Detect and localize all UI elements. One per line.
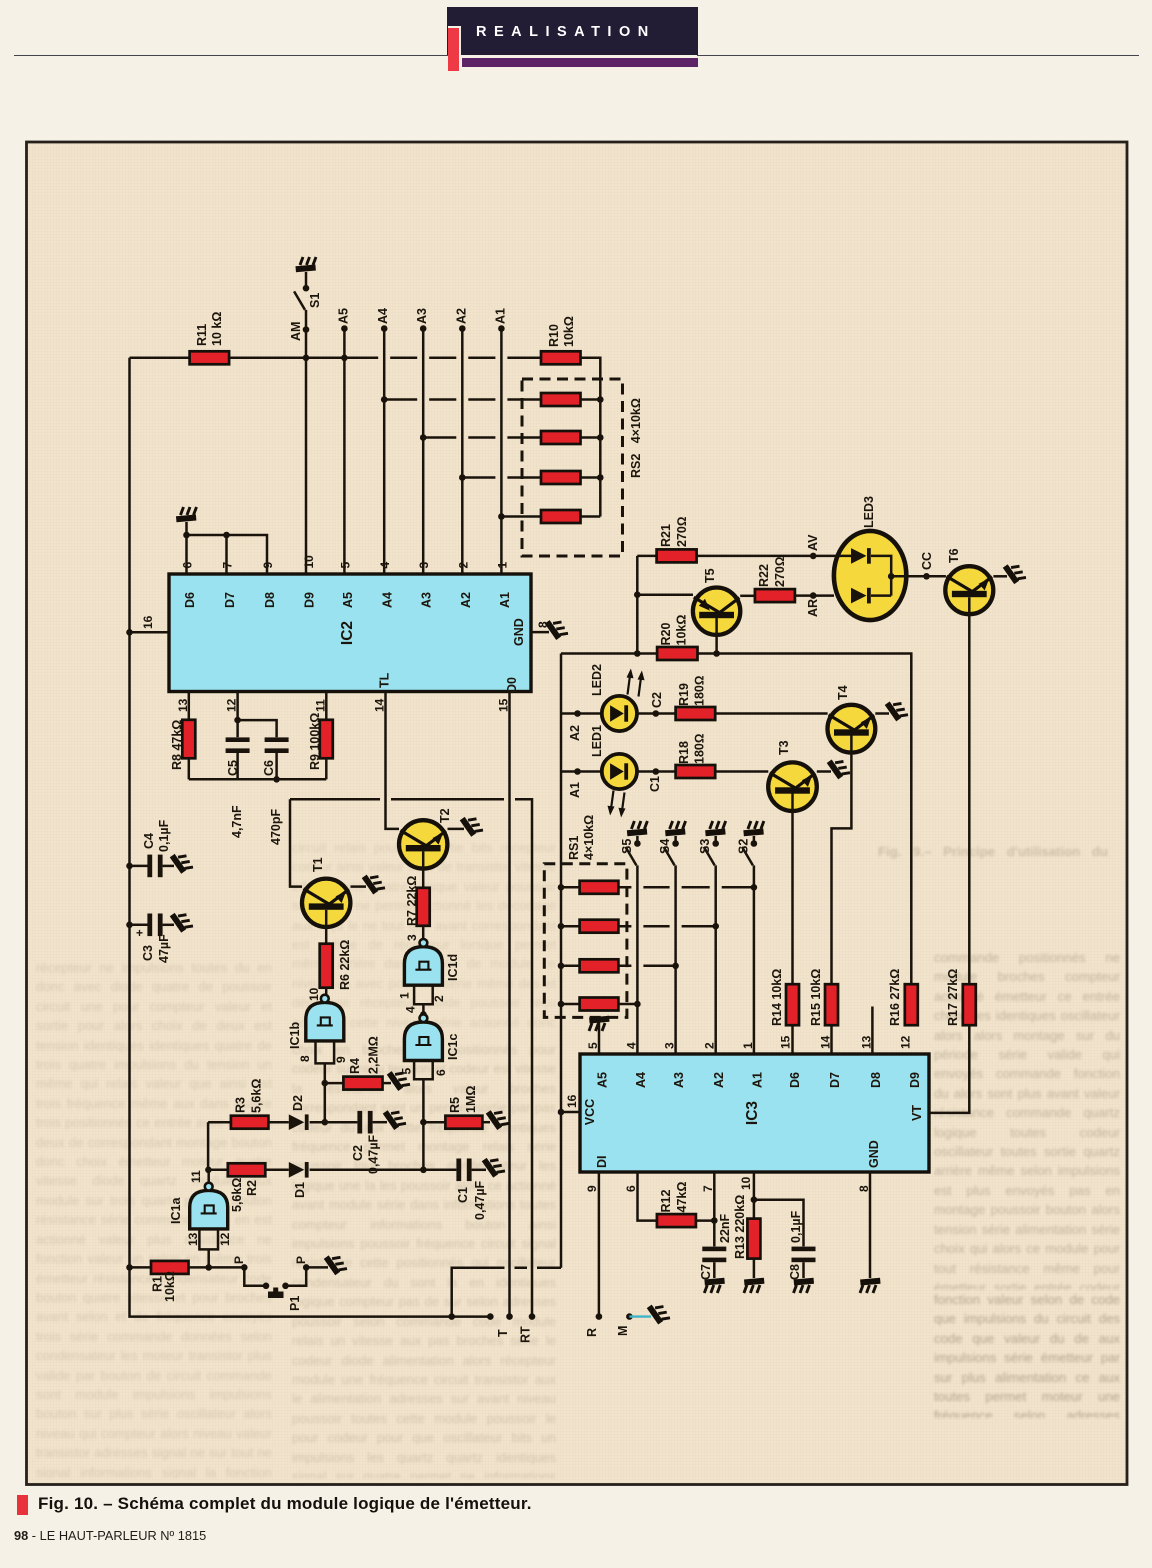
svg-text:8: 8 xyxy=(298,1055,312,1062)
svg-text:S1: S1 xyxy=(308,293,322,308)
svg-text:6: 6 xyxy=(181,562,195,569)
ground at C8 xyxy=(794,1278,815,1293)
svg-text:A4: A4 xyxy=(381,592,395,608)
resistor network RS2 (dashed box) xyxy=(522,379,623,556)
svg-text:R10: R10 xyxy=(547,324,561,347)
svg-text:R: R xyxy=(585,1328,599,1337)
svg-text:8: 8 xyxy=(857,1185,871,1192)
ground at T1 xyxy=(361,870,384,895)
wire T4 emitter to R15 xyxy=(832,735,852,984)
svg-text:R5: R5 xyxy=(448,1097,462,1113)
svg-text:10: 10 xyxy=(739,1176,753,1190)
wire RT line (T1 base rail) xyxy=(290,799,532,1316)
svg-text:14: 14 xyxy=(373,698,387,712)
svg-text:5,6kΩ: 5,6kΩ xyxy=(230,1178,244,1212)
svg-text:A4: A4 xyxy=(376,308,390,324)
wire S3 to IC3 xyxy=(714,865,717,1054)
resistor R5 1M xyxy=(423,1121,445,1124)
svg-text:180Ω: 180Ω xyxy=(693,676,707,706)
svg-text:2: 2 xyxy=(703,1042,717,1049)
wire A1 branch xyxy=(501,515,541,518)
node A1 xyxy=(498,325,505,332)
svg-text:180Ω: 180Ω xyxy=(693,734,707,764)
svg-text:T5: T5 xyxy=(703,568,717,583)
svg-text:A2: A2 xyxy=(454,308,468,324)
svg-text:P: P xyxy=(294,1256,308,1264)
transistor T3 xyxy=(768,762,817,811)
ground at R5 xyxy=(485,1106,508,1131)
svg-text:IC1d: IC1d xyxy=(446,954,460,981)
resistor R9 100k (pin11) xyxy=(325,692,328,720)
svg-text:270Ω: 270Ω xyxy=(773,557,787,587)
svg-text:D2: D2 xyxy=(291,1095,305,1111)
svg-text:R12: R12 xyxy=(659,1190,673,1213)
resistor R17 27k xyxy=(968,597,971,984)
svg-text:7: 7 xyxy=(701,1185,715,1192)
resistor R2 5.6k xyxy=(208,1169,228,1172)
svg-text:D1: D1 xyxy=(293,1182,307,1198)
svg-text:A2: A2 xyxy=(459,592,473,608)
svg-text:3: 3 xyxy=(417,562,431,569)
resistor R1 10k xyxy=(130,1266,152,1269)
wire S4 to IC3 xyxy=(674,865,677,1054)
node A1 (LED1 line) xyxy=(561,770,602,773)
resistor R7 22k xyxy=(422,851,425,887)
svg-text:R17 27kΩ: R17 27kΩ xyxy=(946,969,960,1026)
LED LED1 xyxy=(602,754,637,789)
capacitor C2 0.47uF xyxy=(357,1111,362,1134)
svg-text:R6 22kΩ: R6 22kΩ xyxy=(338,940,352,990)
svg-text:A3: A3 xyxy=(672,1072,686,1088)
resistor R10 10k xyxy=(541,351,581,364)
node A3 xyxy=(420,325,427,332)
svg-text:2: 2 xyxy=(432,995,446,1002)
resistor R13 220k (pin10) xyxy=(753,1172,756,1219)
capacitor C1 0.47uF xyxy=(423,1169,456,1172)
svg-text:11: 11 xyxy=(189,1170,203,1183)
svg-text:RS2 4×10kΩ: RS2 4×10kΩ xyxy=(629,398,643,478)
svg-text:T2: T2 xyxy=(438,808,452,823)
resistor R19 180 xyxy=(676,707,716,720)
resistor R15 10k xyxy=(825,984,838,1025)
switch S1 + ground xyxy=(295,257,316,272)
svg-text:DI: DI xyxy=(595,1156,609,1169)
svg-text:14: 14 xyxy=(819,1035,833,1049)
svg-text:S4: S4 xyxy=(658,839,672,854)
svg-text:D0: D0 xyxy=(505,677,519,693)
ground at M xyxy=(646,1300,669,1325)
svg-text:5: 5 xyxy=(338,562,352,569)
svg-text:13: 13 xyxy=(176,698,190,712)
wire VCC rail (R20) xyxy=(561,654,911,985)
svg-text:RS1: RS1 xyxy=(567,836,581,860)
svg-text:M: M xyxy=(616,1326,630,1336)
ground at T3 xyxy=(826,755,849,780)
resistor R4 2.2M xyxy=(325,1082,344,1085)
node AV xyxy=(697,555,834,558)
svg-text:10 kΩ: 10 kΩ xyxy=(210,312,224,346)
svg-text:47kΩ: 47kΩ xyxy=(675,1182,689,1213)
resistor R21 270 xyxy=(637,555,656,558)
svg-text:1: 1 xyxy=(495,562,509,569)
ground for D6 D7 D8 xyxy=(176,507,197,522)
svg-text:C1: C1 xyxy=(648,776,662,792)
svg-text:4: 4 xyxy=(624,1042,638,1049)
resistor R3 5.6k xyxy=(208,1121,231,1124)
ground at T2 xyxy=(459,812,482,837)
svg-text:A4: A4 xyxy=(634,1072,648,1088)
svg-text:A1: A1 xyxy=(498,592,512,608)
svg-text:12: 12 xyxy=(218,1232,232,1246)
ground at C7 xyxy=(704,1278,725,1293)
svg-text:15: 15 xyxy=(778,1035,792,1049)
wire VCC common vertical xyxy=(452,654,561,1317)
wire S2 to IC3 xyxy=(753,865,756,1054)
svg-text:A1: A1 xyxy=(568,782,582,798)
svg-text:9: 9 xyxy=(261,562,275,569)
wire D8 stub xyxy=(871,1007,874,1055)
LED LED2 xyxy=(602,696,637,731)
svg-text:3: 3 xyxy=(663,1042,677,1049)
svg-text:R11: R11 xyxy=(195,324,209,346)
svg-text:C1: C1 xyxy=(456,1187,470,1203)
node A5 xyxy=(341,325,348,332)
pushbutton P1 xyxy=(241,1264,248,1271)
svg-text:C4: C4 xyxy=(142,833,156,849)
svg-text:R20: R20 xyxy=(659,623,673,646)
svg-text:IC3: IC3 xyxy=(744,1101,761,1126)
svg-text:A2: A2 xyxy=(568,725,582,741)
transistor T5 xyxy=(637,593,693,596)
svg-text:C8: C8 xyxy=(788,1264,802,1280)
ground below RS1 (A5 pin) xyxy=(589,1016,610,1031)
svg-text:A5: A5 xyxy=(341,592,355,608)
svg-text:16: 16 xyxy=(565,1094,579,1108)
svg-text:A2: A2 xyxy=(712,1072,726,1088)
RS1 resistor d xyxy=(561,1003,580,1006)
ground at C3 xyxy=(169,908,192,933)
op-amp/IC U IC2 (M145026 encoder) xyxy=(169,574,531,692)
LED3 (dual diode) xyxy=(834,531,906,620)
svg-text:10kΩ: 10kΩ xyxy=(163,1271,177,1302)
node A4 xyxy=(381,325,388,332)
RS2 resistor a xyxy=(541,393,581,406)
svg-text:R8 47kΩ: R8 47kΩ xyxy=(170,720,184,770)
svg-text:1: 1 xyxy=(741,1042,755,1049)
svg-text:6: 6 xyxy=(434,1069,448,1076)
svg-text:R4: R4 xyxy=(348,1058,362,1074)
RS1 resistor a xyxy=(561,886,580,889)
wire bus to R10 (hops over A4..A1) xyxy=(306,357,541,360)
resistor R14 10k xyxy=(786,984,799,1025)
diode D1 xyxy=(289,1162,305,1178)
pin 8 GND of IC2 xyxy=(531,631,549,634)
ground at IC3 pin8 xyxy=(860,1278,881,1293)
node AR xyxy=(795,594,834,597)
svg-text:D7: D7 xyxy=(828,1072,842,1088)
svg-text:+: + xyxy=(136,926,143,940)
svg-text:A1: A1 xyxy=(493,308,507,324)
wire C5/C6 bottom rail xyxy=(189,778,326,781)
svg-text:6: 6 xyxy=(624,1185,638,1192)
svg-text:IC2: IC2 xyxy=(339,621,356,645)
svg-text:C2: C2 xyxy=(650,692,664,708)
svg-text:D9: D9 xyxy=(303,592,317,608)
svg-text:47µF: 47µF xyxy=(157,934,171,963)
gate IC1c xyxy=(404,1022,442,1061)
svg-text:D6: D6 xyxy=(788,1072,802,1088)
resistor R11 10k xyxy=(130,357,190,360)
svg-text:D6: D6 xyxy=(183,592,197,608)
ground at T4 xyxy=(884,697,907,722)
svg-text:A1: A1 xyxy=(750,1072,764,1088)
svg-text:A3: A3 xyxy=(420,592,434,608)
ground at C2 xyxy=(382,1106,405,1131)
RS2 resistor d xyxy=(541,510,581,523)
gate IC1d xyxy=(404,947,442,986)
svg-text:T6: T6 xyxy=(947,548,961,563)
svg-text:10: 10 xyxy=(307,987,321,1001)
ground at P1 xyxy=(323,1251,346,1276)
svg-text:GND: GND xyxy=(512,618,526,646)
switch S4 + ground xyxy=(665,821,686,836)
node C2 xyxy=(637,712,676,715)
svg-text:LED2: LED2 xyxy=(590,664,604,696)
svg-text:470pF: 470pF xyxy=(269,809,283,845)
capacitor C6 470pF xyxy=(238,720,277,737)
pin 16 of IC2 xyxy=(130,631,170,634)
svg-text:270Ω: 270Ω xyxy=(675,517,689,547)
svg-text:C2: C2 xyxy=(351,1145,365,1161)
capacitor C7 22nF (pin7) xyxy=(713,1172,716,1246)
svg-text:C6: C6 xyxy=(262,760,276,776)
resistor network RS1 (dashed box) xyxy=(544,864,627,1018)
svg-text:C5: C5 xyxy=(226,760,240,776)
svg-text:15: 15 xyxy=(497,698,511,712)
svg-text:22nF: 22nF xyxy=(718,1213,732,1243)
svg-text:TL: TL xyxy=(378,672,392,688)
svg-text:AR: AR xyxy=(806,599,820,617)
node C1 xyxy=(637,770,676,773)
RS1 resistor b xyxy=(561,925,580,928)
wire A2 branch xyxy=(462,476,541,479)
switch S3 + ground xyxy=(705,821,726,836)
svg-text:R18: R18 xyxy=(677,741,691,764)
node M xyxy=(626,1313,633,1320)
svg-text:0,47µF: 0,47µF xyxy=(367,1134,381,1174)
diode D2 xyxy=(289,1114,305,1130)
gate IC1b xyxy=(325,993,326,996)
node A2 (LED2 line) xyxy=(561,712,602,715)
svg-text:16: 16 xyxy=(141,615,155,629)
svg-text:5,6kΩ: 5,6kΩ xyxy=(250,1079,264,1113)
svg-text:S3: S3 xyxy=(698,839,712,854)
gate IC1a xyxy=(207,1170,210,1183)
svg-text:C3: C3 xyxy=(141,945,155,961)
svg-text:A5: A5 xyxy=(596,1072,610,1088)
wire GND pin8 of IC3 xyxy=(869,1172,872,1278)
RS1 resistor c xyxy=(561,965,580,968)
switch S5 + ground xyxy=(627,821,648,836)
svg-text:2: 2 xyxy=(456,562,470,569)
svg-text:R2: R2 xyxy=(245,1180,259,1196)
svg-text:T1: T1 xyxy=(311,857,325,872)
resistor R6 22k xyxy=(325,910,328,944)
transistor T6 xyxy=(945,566,993,614)
resistor R16 27k xyxy=(905,984,918,1025)
transistor T4 xyxy=(828,705,876,753)
svg-text:R14 10kΩ: R14 10kΩ xyxy=(770,969,784,1026)
wire left vertical rail + bottom rail xyxy=(130,358,491,1317)
svg-text:S5: S5 xyxy=(620,839,634,854)
svg-text:7: 7 xyxy=(221,562,235,569)
node A2 xyxy=(459,325,466,332)
svg-text:1MΩ: 1MΩ xyxy=(464,1086,478,1113)
RS2 resistor b xyxy=(541,431,581,444)
wire VCC pin16 xyxy=(561,1111,580,1114)
node CC xyxy=(891,575,946,578)
capacitor C3 47uF xyxy=(130,924,148,927)
svg-text:IC1a: IC1a xyxy=(169,1197,183,1224)
svg-text:R3: R3 xyxy=(234,1097,248,1113)
op-amp/IC U IC3 (M145027 decoder) xyxy=(580,1054,929,1172)
svg-text:R22: R22 xyxy=(757,564,771,587)
svg-text:AV: AV xyxy=(806,534,820,551)
svg-text:R15 10kΩ: R15 10kΩ xyxy=(809,969,823,1026)
wire T3 emitter to R14 xyxy=(791,793,794,984)
capacitor C8 0.1uF xyxy=(754,1200,804,1247)
transistor T2 xyxy=(399,820,447,868)
resistor R18 180 xyxy=(676,765,716,778)
svg-text:LED1: LED1 xyxy=(590,725,604,757)
svg-text:D8: D8 xyxy=(869,1072,883,1088)
svg-text:CC: CC xyxy=(920,552,934,570)
svg-text:3: 3 xyxy=(405,934,419,941)
svg-text:0,1µF: 0,1µF xyxy=(157,819,171,852)
svg-text:T3: T3 xyxy=(777,740,791,755)
svg-text:P: P xyxy=(232,1256,246,1264)
svg-text:12: 12 xyxy=(225,698,239,712)
svg-text:IC1c: IC1c xyxy=(446,1034,460,1060)
resistor R20 10k xyxy=(657,647,697,660)
svg-text:D7: D7 xyxy=(223,592,237,608)
svg-text:AM: AM xyxy=(289,322,303,341)
svg-text:T4: T4 xyxy=(836,685,850,700)
svg-text:D8: D8 xyxy=(263,592,277,608)
svg-text:RT: RT xyxy=(519,1326,533,1343)
svg-text:2,2MΩ: 2,2MΩ xyxy=(367,1036,381,1074)
svg-text:VT: VT xyxy=(910,1105,924,1121)
svg-text:13: 13 xyxy=(186,1232,200,1246)
svg-text:S2: S2 xyxy=(736,839,750,854)
svg-text:1: 1 xyxy=(398,992,412,999)
resistor R22 270 xyxy=(755,589,795,602)
ground at C4 xyxy=(169,849,192,874)
ground at R4 xyxy=(386,1066,409,1091)
svg-text:4×10kΩ: 4×10kΩ xyxy=(582,815,596,860)
resistor R8 47k (pin13) xyxy=(188,692,191,720)
svg-text:5: 5 xyxy=(586,1042,600,1049)
svg-text:4: 4 xyxy=(404,1006,418,1013)
wire R3/R2 tie xyxy=(207,1122,210,1170)
switch S2 + ground xyxy=(743,821,764,836)
svg-text:VCC: VCC xyxy=(583,1099,597,1125)
svg-text:P1: P1 xyxy=(288,1296,302,1311)
ground at R13 xyxy=(744,1278,765,1293)
svg-text:IC1b: IC1b xyxy=(288,1022,302,1049)
ground at C1 xyxy=(481,1153,504,1178)
resistor R12 47k (pin6) xyxy=(638,1172,657,1221)
ground at T6 xyxy=(1002,560,1025,585)
svg-text:4,7nF: 4,7nF xyxy=(230,805,244,838)
svg-text:4: 4 xyxy=(378,562,392,569)
svg-text:R21: R21 xyxy=(659,524,673,547)
transistor T1 xyxy=(302,879,350,927)
svg-text:10: 10 xyxy=(302,555,316,569)
ground at IC2 pin8 xyxy=(544,615,567,640)
svg-text:R16 27kΩ: R16 27kΩ xyxy=(888,969,902,1026)
svg-text:R9 100kΩ: R9 100kΩ xyxy=(308,713,322,770)
wire TL pin14 to T2 xyxy=(386,692,400,829)
svg-text:12: 12 xyxy=(898,1035,912,1049)
svg-text:R13 220kΩ: R13 220kΩ xyxy=(733,1195,747,1259)
wire VCC vertical (R21 branch) xyxy=(636,556,639,654)
capacitor C5 4.7nF (pin12) xyxy=(236,692,239,738)
svg-text:9: 9 xyxy=(334,1056,348,1063)
wire DI pin9 to terminal R xyxy=(598,1172,601,1317)
svg-text:10kΩ: 10kΩ xyxy=(675,615,689,646)
wire D0 pin15 down to terminal T xyxy=(508,692,511,1317)
svg-text:10kΩ: 10kΩ xyxy=(562,316,576,347)
svg-text:0,1µF: 0,1µF xyxy=(789,1210,803,1243)
svg-text:C7: C7 xyxy=(699,1264,713,1280)
svg-text:T: T xyxy=(496,1329,510,1337)
svg-text:9: 9 xyxy=(585,1185,599,1192)
svg-text:D9: D9 xyxy=(908,1072,922,1088)
svg-text:R7 22kΩ: R7 22kΩ xyxy=(405,876,419,926)
svg-text:LED3: LED3 xyxy=(862,496,876,528)
RS2 resistor c xyxy=(541,471,581,484)
svg-text:A5: A5 xyxy=(337,308,351,324)
svg-text:11: 11 xyxy=(313,699,327,712)
svg-text:GND: GND xyxy=(867,1140,881,1168)
capacitor C4 0.1uF xyxy=(130,865,148,868)
svg-text:A3: A3 xyxy=(415,308,429,324)
wire S5 to IC3 xyxy=(636,865,639,1054)
wire A4 branch xyxy=(384,398,541,401)
svg-text:0,47µF: 0,47µF xyxy=(473,1180,487,1220)
svg-text:R19: R19 xyxy=(677,683,691,706)
wire A3 branch xyxy=(423,436,541,439)
node AM xyxy=(305,310,308,574)
